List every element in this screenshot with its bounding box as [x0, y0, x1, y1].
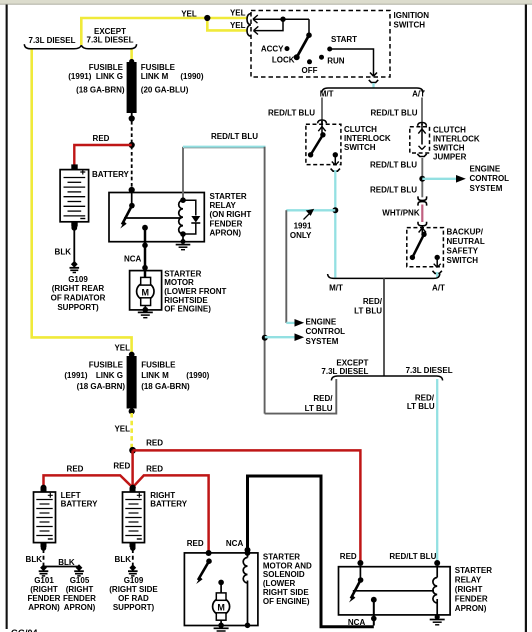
wire: cyan into engine control arrow 1 [286, 322, 294, 324]
svg-text:SOLENOID: SOLENOID [263, 570, 305, 579]
node: junction dot to engine control system [262, 335, 268, 341]
svg-text:FENDER: FENDER [63, 594, 96, 603]
arrow: engine control system (lower) line3 [295, 333, 305, 341]
svg-text:G105: G105 [70, 576, 90, 585]
svg-text:STARTER: STARTER [455, 566, 492, 575]
inline connector pair (barrel) [418, 196, 427, 200]
svg-text:RED: RED [67, 464, 84, 473]
svg-text:FUSIBLE: FUSIBLE [141, 63, 176, 72]
entry connector into clutch switch [318, 120, 327, 123]
svg-text:LINK G: LINK G [96, 371, 123, 380]
node: dot above relay box [129, 187, 135, 193]
svg-text:CONTROL: CONTROL [306, 327, 346, 336]
svg-text:CLUTCH: CLUTCH [433, 126, 466, 135]
node: red dot at solenoid box top [206, 550, 212, 556]
battery B1 [60, 170, 89, 222]
svg-text:LT BLU: LT BLU [305, 404, 333, 413]
backup switch lever [421, 232, 426, 237]
node: ACCY contact [285, 46, 290, 51]
svg-text:BLK: BLK [115, 555, 132, 564]
svg-text:INTERLOCK: INTERLOCK [344, 134, 391, 143]
svg-text:MOTOR: MOTOR [164, 278, 194, 287]
svg-text:STARTER: STARTER [263, 552, 300, 561]
svg-text:YEL: YEL [230, 21, 246, 30]
svg-text:YEL: YEL [181, 10, 197, 19]
starter relay R2 box [339, 567, 451, 615]
svg-text:(1991): (1991) [64, 371, 87, 380]
svg-text:APRON): APRON) [64, 603, 96, 612]
svg-text:RELAY: RELAY [455, 575, 482, 584]
svg-text:ENGINE: ENGINE [306, 317, 337, 326]
svg-text:APRON): APRON) [210, 229, 242, 238]
jumper straight-through wire with arrows [421, 124, 423, 145]
fusible link M (top) black bar [129, 59, 134, 64]
svg-text:(RIGHT REAR: (RIGHT REAR [52, 284, 105, 293]
node: junction 1991 only tap [332, 207, 338, 213]
svg-text:BATTERY: BATTERY [61, 500, 99, 509]
clutch switch lever [320, 132, 325, 137]
relay R2 coil [436, 567, 438, 578]
svg-text:RED/: RED/ [313, 394, 333, 403]
ground under starter motor M1 [138, 311, 153, 313]
svg-text:(18 GA-BRN): (18 GA-BRN) [141, 382, 190, 391]
svg-text:NCA: NCA [124, 254, 142, 263]
ground G101 [39, 564, 49, 576]
battery B3 right [123, 492, 145, 543]
svg-text:SWITCH: SWITCH [447, 256, 479, 265]
node: OFF contact [307, 59, 312, 64]
solenoid motor contact [218, 580, 224, 586]
svg-text:OF RAD: OF RAD [118, 594, 149, 603]
svg-text:RED/LT BLU: RED/LT BLU [211, 132, 258, 141]
svg-text:(1990): (1990) [186, 371, 209, 380]
svg-text:OF ENGINE): OF ENGINE) [263, 597, 310, 606]
svg-text:SAFETY: SAFETY [447, 246, 479, 255]
svg-text:RELAY: RELAY [210, 201, 237, 210]
node: junction to engine control (upper) [419, 176, 425, 182]
wire: grey below jumper [421, 158, 423, 197]
wire: grey 1991-only vertical [285, 210, 287, 323]
svg-text:(18 GA-BRN): (18 GA-BRN) [76, 86, 125, 95]
svg-text:STARTER: STARTER [164, 269, 201, 278]
svg-text:LT BLU: LT BLU [354, 306, 382, 315]
svg-text:G109: G109 [124, 576, 144, 585]
svg-text:BLK: BLK [58, 558, 75, 567]
wire: cyan to engine control arrow (upper) [422, 178, 456, 180]
wire: red battery feed [74, 145, 131, 165]
wire: grey A/T stub [421, 98, 423, 126]
backup switch output contact [435, 255, 440, 260]
svg-text:RED/LT BLU: RED/LT BLU [370, 185, 417, 194]
relay R1 NCA contact [142, 225, 148, 231]
ground G109 (rad support) [128, 564, 138, 576]
connector arcs at ignition feed pins [247, 14, 251, 25]
node: red dot at relay R2 [357, 560, 363, 566]
svg-text:MOTOR AND: MOTOR AND [263, 561, 312, 570]
svg-text:RED: RED [113, 461, 130, 470]
svg-text:(20 GA-BLU): (20 GA-BLU) [141, 86, 189, 95]
svg-text:(18 GA-BRN): (18 GA-BRN) [77, 382, 126, 391]
svg-text:NCA: NCA [348, 618, 366, 627]
wire: cyan 7.3L diesel branch long vertical [436, 379, 438, 563]
svg-text:FENDER: FENDER [28, 594, 61, 603]
arrow: engine control system (lower) line1 [295, 319, 305, 327]
node: cyan dot at relay R2 [434, 560, 440, 566]
ground G105 [74, 564, 84, 576]
svg-text:RIGHT: RIGHT [150, 491, 175, 500]
svg-text:LINK M: LINK M [141, 72, 169, 81]
entry connector into backup switch [421, 225, 423, 235]
node: left battery terminal dot [41, 485, 47, 491]
wire: red main horizontal to relay R2 [133, 450, 361, 563]
svg-text:SYSTEM: SYSTEM [470, 184, 503, 193]
node: main red junction dot [129, 447, 136, 454]
split brace M/T / A/T [322, 88, 423, 93]
svg-text:ONLY: ONLY [290, 231, 312, 240]
svg-text:M/T: M/T [320, 90, 334, 99]
svg-text:LEFT: LEFT [61, 491, 81, 500]
node: dot at solenoid NCA entry [245, 547, 251, 553]
ground under relay R2 [435, 614, 440, 619]
wire: cyan A/T output stub [436, 272, 438, 278]
svg-text:(1991): (1991) [68, 72, 91, 81]
ignition switch dashed box [251, 11, 390, 78]
svg-text:(LOWER: (LOWER [263, 579, 296, 588]
svg-text:SWITCH: SWITCH [394, 21, 426, 30]
svg-text:RED/LT BLU: RED/LT BLU [268, 109, 315, 118]
svg-text:1991: 1991 [294, 221, 312, 230]
svg-text:(RIGHT: (RIGHT [66, 585, 94, 594]
svg-text:M/T: M/T [329, 284, 343, 293]
svg-text:NEUTRAL: NEUTRAL [447, 237, 485, 246]
motor M1 symbol [137, 283, 154, 300]
wire: ignition internal feed 2 with arrow [254, 19, 284, 30]
solenoid switch lever [206, 558, 212, 564]
svg-text:BATTERY: BATTERY [92, 170, 130, 179]
svg-text:OFF: OFF [302, 66, 318, 75]
ground under solenoid box [214, 627, 229, 629]
battery B2 left [34, 492, 56, 543]
relay R1 coil [182, 147, 184, 200]
svg-text:OF ENGINE): OF ENGINE) [164, 305, 211, 314]
starter motor M1 box [130, 271, 162, 310]
svg-text:INTERLOCK: INTERLOCK [433, 135, 480, 144]
relay R1 contact bar [124, 217, 182, 219]
wire: BLK right battery to ground [130, 545, 136, 551]
fusible link (lower) black bar [129, 352, 135, 358]
wire: NCA relay to starter motor [144, 228, 147, 278]
wire: yellow right branch into fusible link M [130, 50, 133, 62]
starter relay R1 box [109, 193, 204, 242]
relay R2 NCA contact [371, 597, 377, 603]
clutch interlock switch jumper dashed box [410, 127, 430, 153]
svg-text:RIGHT SIDE: RIGHT SIDE [263, 588, 309, 597]
svg-text:LOCK: LOCK [272, 55, 295, 64]
starter motor and solenoid box [184, 553, 258, 626]
svg-text:NCA: NCA [226, 539, 244, 548]
svg-text:APRON): APRON) [455, 604, 487, 613]
wire: grey long vertical collector [264, 147, 266, 414]
svg-text:BACKUP/: BACKUP/ [447, 227, 484, 236]
wire: cyan M/T output down to merge [334, 170, 336, 278]
svg-text:RED/LT BLU: RED/LT BLU [371, 109, 418, 118]
svg-text:A/T: A/T [412, 90, 425, 99]
top toolbar bar [0, 0, 532, 5]
svg-text:RED: RED [146, 439, 163, 448]
wire: cyan 1991-only tap across [286, 209, 335, 211]
inline connector cup (lower) [418, 222, 427, 226]
relay R2 switch lever [359, 567, 361, 579]
node: junction dot on yellow feed [204, 15, 210, 21]
svg-text:(1990): (1990) [180, 72, 203, 81]
svg-text:YEL: YEL [114, 424, 130, 433]
exit connector cup jumper [417, 154, 426, 157]
arrow: engine control system (upper) [456, 175, 466, 183]
svg-text:FUSIBLE: FUSIBLE [89, 360, 124, 369]
wire: BLK battery to ground [71, 225, 77, 231]
svg-text:GG/04: GG/04 [11, 628, 38, 632]
wire: yellow dashed below lower fusible link [130, 413, 133, 448]
svg-text:RED: RED [146, 465, 163, 474]
svg-text:YEL: YEL [114, 343, 130, 352]
svg-text:BLK: BLK [26, 555, 43, 564]
svg-text:OF RADIATOR: OF RADIATOR [51, 294, 106, 303]
left page border [6, 5, 8, 630]
svg-text:ENGINE: ENGINE [470, 164, 501, 173]
wire: cyan relay coil feed horizontal [183, 146, 266, 148]
svg-text:RIGHTSIDE: RIGHTSIDE [164, 296, 208, 305]
svg-text:BATTERY: BATTERY [150, 500, 188, 509]
backup/neutral safety switch dashed box [407, 228, 444, 267]
battery B3 plus mark [137, 493, 142, 498]
svg-text:APRON): APRON) [28, 603, 60, 612]
motor M2 symbol [220, 582, 222, 593]
split brace 7.3L DIESEL / EXCEPT 7.3L DIESEL [24, 44, 81, 49]
relay R1 ground [182, 234, 184, 242]
wire: dashed black from fusible link to starter relay [131, 121, 133, 190]
svg-text:SWITCH: SWITCH [433, 144, 465, 153]
svg-text:IGNITION: IGNITION [394, 11, 430, 20]
right page border [525, 5, 527, 632]
wire: cyan into engine control arrow 2 [265, 336, 295, 338]
svg-text:FENDER: FENDER [210, 219, 243, 228]
svg-text:(ON RIGHT: (ON RIGHT [210, 210, 252, 219]
svg-text:START: START [331, 35, 357, 44]
svg-text:M: M [142, 287, 150, 297]
svg-text:SUPPORT): SUPPORT) [113, 603, 155, 612]
svg-text:SYSTEM: SYSTEM [306, 337, 339, 346]
svg-text:RED: RED [187, 539, 204, 548]
svg-text:CLUTCH: CLUTCH [344, 125, 377, 134]
split brace EXCEPT 7.3L DIESEL / 7.3L DIESEL [331, 376, 442, 380]
wire: grey M/T stub [321, 98, 323, 125]
svg-text:YEL: YEL [230, 9, 246, 18]
relay R1 diode [183, 200, 196, 215]
ignition rotor lever [308, 19, 310, 35]
svg-text:A/T: A/T [432, 284, 445, 293]
svg-text:RED/: RED/ [363, 297, 383, 306]
wire: yellow left branch (7.3L DIESEL) long vertical [32, 50, 132, 355]
entry connector into jumper [418, 123, 427, 126]
wire: red battery bus [44, 475, 209, 553]
svg-text:7.3L DIESEL: 7.3L DIESEL [406, 366, 453, 375]
svg-text:7.3L DIESEL: 7.3L DIESEL [321, 367, 368, 376]
wire: cyan stub to M/T-A/T split [372, 83, 374, 89]
relay R2 contact bar [353, 590, 434, 592]
battery B3 minus mark [137, 538, 142, 540]
node: junction dot red/dashed [129, 142, 135, 148]
svg-text:LINK M: LINK M [141, 371, 169, 380]
svg-text:RED/LT BLU: RED/LT BLU [370, 160, 417, 169]
battery B1 plus terminal mark [80, 170, 85, 175]
clutch switch output contact [333, 152, 338, 157]
wire: BLK jumper between G101 and G105 [44, 566, 80, 568]
wire: red junction down to right battery [131, 450, 134, 487]
wire: START output [330, 49, 374, 71]
svg-text:FUSIBLE: FUSIBLE [141, 360, 176, 369]
connector cup at ignition box exit [369, 80, 378, 83]
svg-text:7.3L DIESEL: 7.3L DIESEL [29, 36, 76, 45]
svg-text:FENDER: FENDER [455, 594, 488, 603]
svg-text:(LOWER FRONT: (LOWER FRONT [164, 287, 226, 296]
svg-text:(RIGHT: (RIGHT [30, 585, 58, 594]
svg-text:RUN: RUN [327, 57, 345, 66]
wire: thick NCA link solenoid to relay R2 [248, 476, 374, 627]
svg-text:7.3L DIESEL: 7.3L DIESEL [87, 35, 134, 44]
battery B2 plus mark [48, 493, 53, 498]
svg-text:G109: G109 [68, 275, 88, 284]
svg-text:STARTER: STARTER [210, 192, 247, 201]
svg-text:WHT/PNK: WHT/PNK [382, 209, 420, 218]
svg-text:SWITCH: SWITCH [344, 143, 376, 152]
svg-text:FUSIBLE: FUSIBLE [89, 63, 124, 72]
svg-text:G101: G101 [34, 576, 54, 585]
battery B2 minus mark [48, 538, 53, 540]
svg-text:CONTROL: CONTROL [470, 174, 510, 183]
node: START contact [327, 47, 332, 52]
svg-text:ACCY: ACCY [261, 44, 284, 53]
svg-text:RED: RED [93, 134, 110, 143]
svg-text:(RIGHT SIDE: (RIGHT SIDE [109, 585, 158, 594]
battery B1 minus mark [80, 218, 85, 220]
svg-text:SUPPORT): SUPPORT) [57, 303, 99, 312]
svg-text:M: M [217, 602, 225, 612]
relay R1 switch lever [131, 193, 133, 205]
exit connector cup backup switch [433, 271, 442, 274]
svg-text:RED: RED [340, 552, 357, 561]
clutch interlock switch dashed box [306, 124, 341, 164]
svg-text:RED/LT BLU: RED/LT BLU [389, 552, 436, 561]
merge brace M/T + A/T [328, 274, 440, 278]
node: RUN contact [319, 55, 324, 60]
wire: yellow feed horizontal top [81, 18, 247, 45]
wire: ignition internal feed 1 with arrow [253, 18, 309, 20]
ground G109 (radiator support) [70, 261, 80, 273]
svg-text:JUMPER: JUMPER [433, 153, 467, 162]
wire: WHT/PNK segment [421, 205, 423, 223]
svg-text:LINK G: LINK G [96, 72, 123, 81]
svg-text:(RIGHT: (RIGHT [455, 585, 483, 594]
node: right battery terminal dot [130, 485, 136, 491]
svg-text:LT BLU: LT BLU [407, 402, 435, 411]
wire: merged dark vertical [383, 278, 385, 376]
svg-text:BLK: BLK [55, 248, 72, 257]
exit connector cup clutch switch [331, 169, 340, 172]
node: dot on feed 1 [280, 17, 285, 22]
wire: BLK left battery to ground [41, 545, 47, 551]
wire: grey except-diesel branch to relay R1 coil collector [265, 379, 337, 414]
wire: yellow stub to second ignition pin [207, 18, 247, 30]
solenoid coil [245, 550, 251, 556]
